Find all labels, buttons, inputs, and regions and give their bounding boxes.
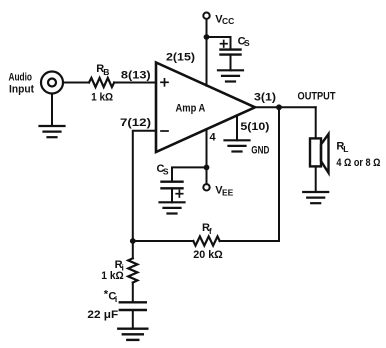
node feedback junction	[130, 238, 136, 244]
node junction pin4/CS	[204, 165, 210, 171]
svg-text:1 kΩ: 1 kΩ	[91, 91, 113, 103]
svg-text:3(1): 3(1)	[254, 92, 276, 104]
svg-text:EE: EE	[222, 188, 234, 198]
wire jack down to ground	[51, 94, 53, 126]
op-amp U1 Amp A triangle	[156, 63, 255, 153]
svg-text:CC: CC	[222, 16, 234, 26]
ground (below bottom CS)	[160, 202, 185, 213]
svg-text:Amp A: Amp A	[176, 103, 206, 115]
wire CS bottom to ground	[171, 188, 173, 202]
svg-text:B: B	[103, 67, 109, 77]
svg-text:GND: GND	[251, 144, 269, 156]
node junction VCC/CS	[204, 34, 210, 40]
svg-text:OUTPUT: OUTPUT	[298, 90, 336, 102]
svg-text:20 kΩ: 20 kΩ	[193, 249, 223, 261]
resistor Ri	[128, 258, 137, 282]
wire feedback right vertical	[278, 107, 280, 241]
ground GND (pin 5)	[225, 140, 250, 151]
svg-text:Audio: Audio	[9, 72, 33, 84]
wire op-amp output pin 3(1)	[255, 106, 316, 108]
wire Ri to Ci	[132, 283, 134, 303]
svg-text:8(13): 8(13)	[121, 69, 151, 81]
op-amp + input symbol	[161, 79, 168, 86]
ground (below jack)	[40, 126, 65, 137]
wire CS to ground	[230, 55, 232, 71]
wire junction down to Ri	[132, 241, 134, 258]
svg-text:Input: Input	[9, 84, 34, 96]
wire feedback bottom left	[133, 240, 194, 242]
svg-text:L: L	[343, 144, 348, 154]
wire pin 5(10) down to GND	[236, 115, 238, 140]
node Audio Input label	[9, 72, 35, 96]
ground (below speaker)	[303, 192, 328, 203]
op-amp - input symbol	[161, 130, 168, 132]
jack J1 Audio Input connector	[41, 72, 63, 94]
wire inverting input pin 7(12)	[133, 131, 156, 241]
capacitor CS (bottom)	[162, 182, 183, 189]
wire VCC down to op-amp top edge	[206, 19, 208, 86]
svg-text:S: S	[163, 166, 169, 176]
wire output down to speaker	[315, 107, 317, 138]
wire junction to CS top	[207, 37, 231, 49]
ground (below Ci)	[118, 329, 147, 340]
node output junction	[276, 104, 282, 110]
wire jack to RB	[64, 82, 90, 84]
wire feedback bottom right	[220, 240, 279, 242]
wire Ci to ground	[132, 310, 134, 329]
capacitor CS (top)	[221, 50, 241, 55]
svg-text:7(12): 7(12)	[120, 117, 151, 129]
svg-text:22 μF: 22 μF	[87, 309, 118, 321]
wire speaker to ground	[315, 166, 317, 192]
svg-text:S: S	[244, 38, 250, 48]
wire RB to op-amp + input, pin 8(13)	[114, 82, 156, 84]
resistor RB	[89, 78, 114, 87]
terminal VCC	[203, 13, 209, 19]
capacitor Ci	[120, 302, 146, 310]
svg-text:4 Ω or 8 Ω: 4 Ω or 8 Ω	[336, 157, 380, 169]
svg-text:f: f	[209, 226, 212, 236]
svg-text:1 kΩ: 1 kΩ	[101, 270, 124, 282]
svg-text:5(10): 5(10)	[240, 121, 269, 133]
svg-text:i: i	[115, 294, 117, 304]
svg-text:2(15): 2(15)	[166, 52, 195, 64]
svg-text:4: 4	[210, 131, 217, 143]
ground (below top CS)	[218, 70, 243, 81]
wire junction to CS bottom	[172, 167, 207, 181]
terminal VEE	[203, 184, 209, 190]
wire pin 4 down to VEE	[206, 129, 208, 184]
resistor Rf	[193, 236, 219, 245]
speaker RL	[310, 138, 321, 166]
